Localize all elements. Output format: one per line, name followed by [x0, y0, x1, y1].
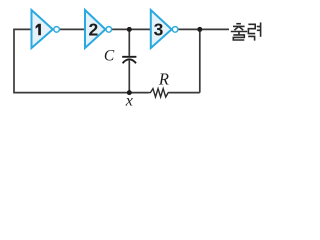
svg-text:R: R [158, 69, 169, 88]
svg-text:x: x [125, 92, 133, 109]
node x junction [127, 90, 132, 95]
wire: right vertical from output node [199, 29, 201, 92]
wire: inverter 2 output to inverter 3 [112, 28, 151, 30]
wire: capacitor top lead [128, 29, 130, 56]
wire: bottom right segment [169, 92, 200, 94]
capacitor C curved plate [123, 59, 136, 63]
inverter U2 bubble [106, 27, 112, 33]
node: junction after inverter 2 [127, 27, 132, 32]
inverter U1 label 1 [36, 24, 41, 36]
inverter U1 bubble [54, 27, 60, 33]
wire: inverter 3 output to 출력 [178, 28, 229, 30]
inverter U3 triangle [151, 10, 172, 48]
svg-text:2: 2 [89, 19, 99, 39]
wire: bottom horizontal [13, 92, 149, 94]
svg-text:3: 3 [154, 19, 164, 39]
wire: capacitor bottom lead to node x [128, 60, 130, 92]
node: output junction [197, 27, 202, 32]
wire: inverter 1 output to inverter 2 [60, 28, 86, 30]
inverter U1 triangle [32, 10, 53, 48]
label 출력 (output) glyph 력 [248, 22, 260, 40]
capacitor C top plate [122, 56, 136, 58]
wire: input to inverter 1 [13, 28, 31, 30]
inverter U3 bubble [172, 27, 178, 33]
inverter U2 triangle [85, 10, 105, 48]
label 출력 (output) glyph 출 [231, 24, 247, 40]
wire: left feedback vertical [13, 29, 15, 92]
resistor R zigzag [149, 89, 170, 97]
svg-text:C: C [104, 48, 115, 65]
